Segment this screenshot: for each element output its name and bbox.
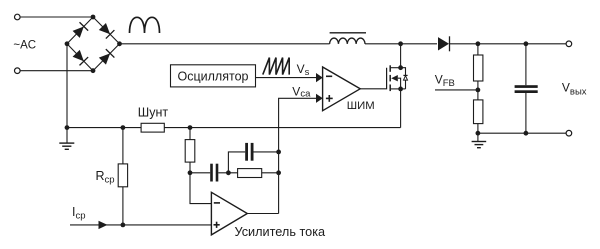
svg-text:ШИМ: ШИМ [347, 100, 375, 112]
svg-text:~AC: ~AC [13, 40, 36, 52]
svg-text:Осциллятор: Осциллятор [178, 69, 249, 83]
svg-text:Шунт: Шунт [138, 106, 169, 120]
svg-text:Усилитель тока: Усилитель тока [235, 225, 327, 239]
